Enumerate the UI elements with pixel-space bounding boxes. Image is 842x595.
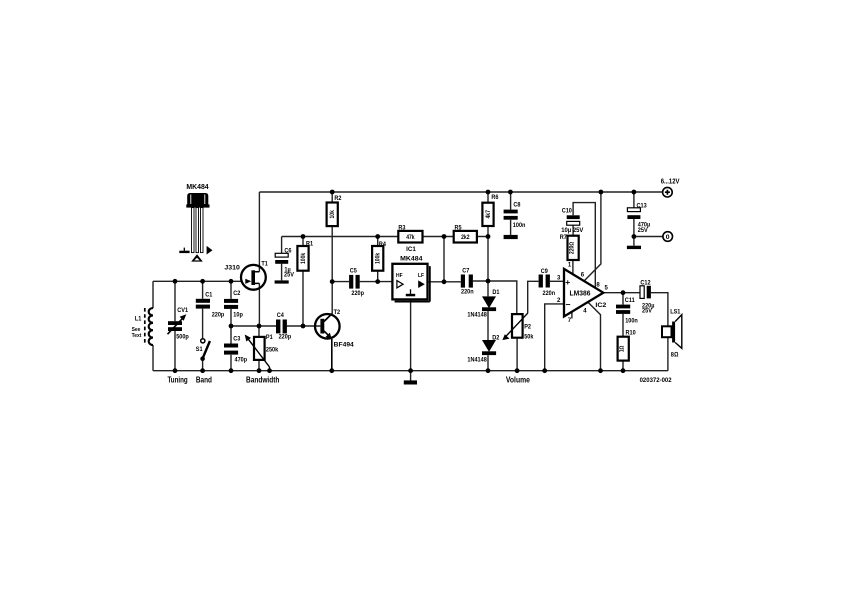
diode D2 xyxy=(467,335,499,364)
svg-text:C4: C4 xyxy=(277,312,284,319)
capacitor C1 xyxy=(196,291,225,318)
wire IC1 output line xyxy=(428,281,517,314)
svg-text:C12: C12 xyxy=(640,279,650,286)
svg-text:100k: 100k xyxy=(376,252,382,264)
wire C9 to pin3 xyxy=(550,280,564,282)
svg-text:4k7: 4k7 xyxy=(486,210,492,219)
variable capacitor CV1 xyxy=(168,307,189,340)
svg-text:R5: R5 xyxy=(455,224,462,231)
svg-text:R10: R10 xyxy=(626,330,636,337)
svg-text:T2: T2 xyxy=(334,309,341,316)
svg-text:R1: R1 xyxy=(306,240,313,247)
resistor R3 xyxy=(398,224,422,242)
switch S1 xyxy=(196,339,210,361)
svg-text:Volume: Volume xyxy=(506,374,530,384)
wire left column xyxy=(152,281,154,370)
svg-text:D1: D1 xyxy=(492,289,499,296)
svg-text:IC2: IC2 xyxy=(595,302,606,309)
wire supply to pin6 xyxy=(584,192,601,281)
wire C2-C3 branch xyxy=(230,281,232,370)
svg-text:CV1: CV1 xyxy=(177,307,188,314)
capacitor C7 xyxy=(461,267,474,295)
wire 0 terminal line xyxy=(634,236,664,238)
capacitor C12 xyxy=(640,279,655,314)
wire CV1 branch xyxy=(174,281,176,370)
wire bias line xyxy=(282,236,488,238)
wire C6 stubs xyxy=(281,237,283,281)
svg-text:C2: C2 xyxy=(233,290,240,297)
capacitor C6 xyxy=(275,248,295,284)
wire pin7 stub xyxy=(571,312,573,319)
resistor R4 xyxy=(372,241,386,271)
svg-text:1N4148: 1N4148 xyxy=(467,311,487,318)
svg-text:C7: C7 xyxy=(462,267,469,274)
terminal 0 xyxy=(663,232,673,242)
svg-text:1N4148: 1N4148 xyxy=(467,357,487,364)
svg-text:C11: C11 xyxy=(625,297,635,304)
svg-text:25V: 25V xyxy=(284,272,294,279)
resistor R2 xyxy=(327,195,342,226)
svg-text:LF: LF xyxy=(418,273,424,279)
op-amp IC2 LM386 xyxy=(557,263,609,324)
svg-text:220n: 220n xyxy=(543,290,556,297)
wire D1-D2 chain xyxy=(487,311,489,371)
wire T1 drain to rail xyxy=(258,192,260,272)
svg-text:C9: C9 xyxy=(541,268,548,275)
MK484 package pictogram xyxy=(179,184,212,262)
wire P2 bottom xyxy=(516,338,518,371)
svg-text:J310: J310 xyxy=(224,265,240,272)
transistor T2 BF494 xyxy=(315,309,354,371)
svg-text:C1: C1 xyxy=(205,291,212,298)
wire bandwidth line xyxy=(231,325,320,327)
wire pin1 to R7 xyxy=(572,260,574,274)
wire T1 source xyxy=(258,283,260,326)
resistor R6 xyxy=(482,194,498,226)
svg-text:Tuning: Tuning xyxy=(167,374,187,384)
svg-text:25V: 25V xyxy=(642,308,652,315)
svg-text:100n: 100n xyxy=(513,222,526,229)
capacitor C3 xyxy=(224,335,247,363)
wire C10 to pin8 xyxy=(573,203,595,289)
capacitor C11 xyxy=(616,297,638,324)
svg-text:470p: 470p xyxy=(235,356,248,363)
resistor R10 xyxy=(618,330,636,361)
svg-text:R6: R6 xyxy=(491,194,498,201)
svg-text:8Ω: 8Ω xyxy=(671,351,679,358)
svg-text:C6: C6 xyxy=(284,248,291,255)
svg-text:020372-002: 020372-002 xyxy=(640,377,672,384)
wire C13 branch xyxy=(633,192,635,246)
capacitor C10 xyxy=(561,208,584,234)
terminal + 6..12V xyxy=(661,179,680,197)
svg-text:220n: 220n xyxy=(461,288,474,295)
svg-text:LS1: LS1 xyxy=(670,309,680,316)
wire P1 stubs xyxy=(258,326,260,371)
svg-text:R3: R3 xyxy=(398,224,405,231)
svg-text:C10: C10 xyxy=(562,208,572,215)
wire P2 wiper to C9 xyxy=(528,281,539,313)
svg-text:MK484: MK484 xyxy=(400,255,423,262)
node junction dots xyxy=(173,190,637,374)
wire tank top line xyxy=(153,280,241,282)
wire C5 line xyxy=(332,281,392,283)
svg-text:MK484: MK484 xyxy=(186,184,208,191)
svg-text:R2: R2 xyxy=(334,195,341,202)
capacitor C4 xyxy=(276,312,291,340)
ground below IC1 xyxy=(404,380,417,384)
svg-text:C5: C5 xyxy=(350,268,357,275)
wire R7 to C10 xyxy=(572,225,574,235)
svg-text:6...12V: 6...12V xyxy=(661,179,680,186)
transistor T1 J310 JFET xyxy=(224,261,268,290)
svg-text:IC1: IC1 xyxy=(406,246,416,253)
svg-text:220p: 220p xyxy=(351,290,364,297)
svg-text:10p: 10p xyxy=(233,311,243,318)
capacitor C13 xyxy=(627,203,650,249)
wire pin2 to ground xyxy=(545,304,564,371)
diode D1 xyxy=(467,289,499,318)
capacitor C5 xyxy=(349,268,364,297)
IC1 MK484 block xyxy=(392,246,429,301)
svg-text:R7: R7 xyxy=(560,234,567,241)
svg-text:−: − xyxy=(566,299,571,309)
svg-text:47k: 47k xyxy=(406,235,415,241)
svg-text:C3: C3 xyxy=(233,335,240,342)
svg-text:0: 0 xyxy=(666,234,670,241)
svg-text:10µ 25V: 10µ 25V xyxy=(561,227,584,234)
wire C11-R10 branch xyxy=(622,293,624,371)
wire top supply rail xyxy=(259,191,663,193)
svg-text:2k2: 2k2 xyxy=(461,235,470,241)
svg-text:+: + xyxy=(565,277,570,287)
wire R2 collector branch xyxy=(324,192,332,321)
wire IC1 ground stem xyxy=(410,299,412,380)
resistor R5 xyxy=(454,224,477,242)
svg-text:P2: P2 xyxy=(524,324,531,331)
wire R6 branch xyxy=(487,192,489,296)
wire pin5 output xyxy=(603,293,668,371)
svg-text:25V: 25V xyxy=(638,227,648,234)
svg-text:C13: C13 xyxy=(637,203,647,210)
svg-text:10k: 10k xyxy=(330,210,336,219)
loudspeaker LS1 xyxy=(662,309,682,359)
svg-text:Bandwidth: Bandwidth xyxy=(246,374,279,384)
svg-text:Text: Text xyxy=(132,333,142,339)
svg-text:S1: S1 xyxy=(196,346,203,353)
svg-text:50k: 50k xyxy=(524,333,533,340)
inductor L1 xyxy=(132,308,153,345)
resistor R1 xyxy=(297,240,313,270)
svg-text:100k: 100k xyxy=(301,252,307,264)
capacitor C9 xyxy=(539,268,556,297)
svg-text:D2: D2 xyxy=(492,335,499,342)
capacitor C8 xyxy=(504,192,526,239)
svg-text:L1: L1 xyxy=(135,315,142,322)
potentiometer P1 xyxy=(245,334,279,371)
resistor R7 xyxy=(560,234,579,260)
svg-text:1Ω: 1Ω xyxy=(620,345,626,352)
svg-text:100n: 100n xyxy=(625,317,638,324)
potentiometer P2 xyxy=(502,313,533,340)
svg-text:BF494: BF494 xyxy=(334,342,354,349)
svg-text:T1: T1 xyxy=(261,261,268,268)
svg-text:500p: 500p xyxy=(176,333,189,340)
wire R1 branch xyxy=(302,237,304,327)
wire R4 branch xyxy=(377,237,379,282)
capacitor C2 xyxy=(224,290,243,318)
svg-text:250k: 250k xyxy=(266,347,279,354)
svg-text:P1: P1 xyxy=(266,334,273,341)
svg-text:220Ω: 220Ω xyxy=(570,241,576,254)
svg-text:R4: R4 xyxy=(379,241,386,248)
wire C1-S1 branch xyxy=(202,281,204,370)
wire R3-R5 junction drop xyxy=(443,237,445,282)
svg-text:LM386: LM386 xyxy=(570,291,591,298)
wire pin4 to ground xyxy=(588,302,601,371)
svg-text:HF: HF xyxy=(396,273,403,279)
svg-text:220p: 220p xyxy=(279,333,292,340)
svg-text:C8: C8 xyxy=(513,202,520,209)
svg-text:Band: Band xyxy=(196,374,212,384)
svg-text:220p: 220p xyxy=(212,311,225,318)
wire bottom ground rail xyxy=(153,370,668,372)
